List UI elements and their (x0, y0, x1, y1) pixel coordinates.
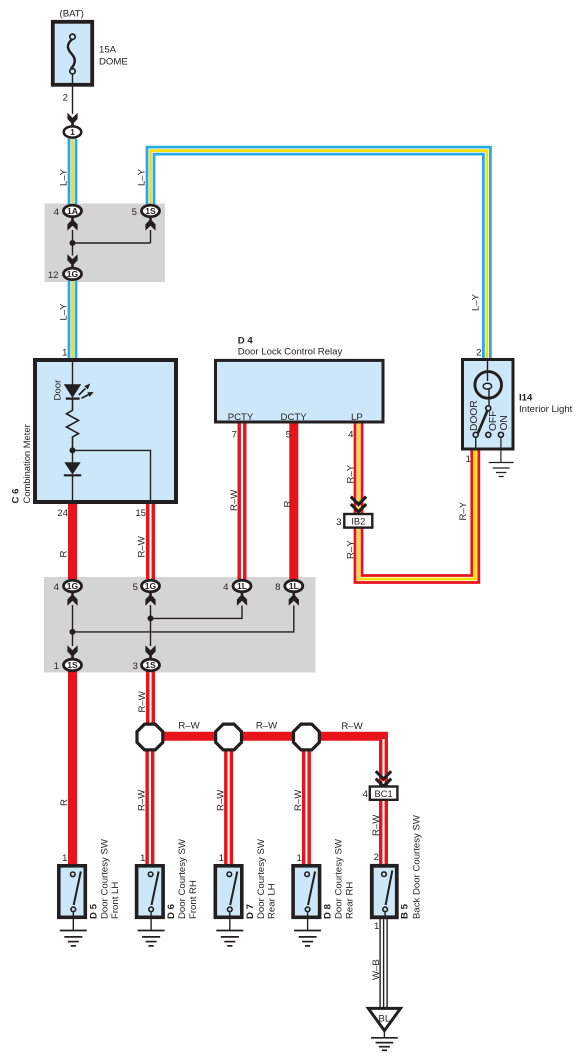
svg-text:PCTY: PCTY (228, 412, 254, 423)
svg-text:ON: ON (499, 415, 510, 430)
svg-text:R: R (59, 551, 70, 558)
svg-text:R–Y: R–Y (458, 501, 469, 520)
svg-text:IB2: IB2 (351, 517, 365, 527)
C6 internal wire from pin 1 (72, 358, 74, 385)
svg-text:(BAT): (BAT) (60, 9, 84, 20)
arrow up into connector 1G(4) (67, 592, 77, 606)
upper J/B internal wiring: stem to 1A (73, 230, 151, 256)
connector ellipse 1A pin 4 (64, 205, 82, 217)
arrow up into connector 1L(8) (289, 592, 299, 606)
arrow down into connector 1 (67, 113, 77, 127)
svg-text:DOME: DOME (99, 57, 128, 68)
svg-text:BC1: BC1 (375, 789, 393, 799)
svg-text:4: 4 (348, 430, 354, 441)
svg-text:5: 5 (132, 207, 137, 218)
svg-text:7: 7 (232, 430, 237, 441)
connector ellipse 1S pin 5 (142, 205, 160, 217)
svg-text:R–Y: R–Y (346, 464, 357, 483)
connector BC1 chevron (376, 771, 391, 786)
svg-text:Door: Door (53, 379, 64, 401)
connector ellipse 1 below fuse (64, 126, 82, 137)
svg-text:1L: 1L (237, 581, 247, 591)
arrow up into connector 1S (145, 216, 155, 230)
svg-text:Door Lock Control Relay: Door Lock Control Relay (238, 347, 343, 358)
LED Door indicator (64, 384, 94, 399)
svg-text:3: 3 (133, 661, 138, 672)
junction dot upper J/B (70, 240, 76, 246)
svg-text:Rear LH: Rear LH (267, 883, 278, 919)
wire R-W horizontal junction row to connector BC1 (151, 736, 384, 786)
junction octagon 2 (216, 724, 242, 750)
wire L-Y from connector 1S to interior light pin 2 (151, 151, 487, 358)
svg-text:1: 1 (54, 661, 59, 672)
svg-text:DOOR: DOOR (469, 400, 480, 431)
svg-text:OFF: OFF (488, 411, 499, 431)
connector ellipse 1G pin 12 (64, 268, 82, 280)
svg-text:R: R (283, 501, 294, 508)
svg-text:2: 2 (63, 93, 68, 104)
connector IB2 box pin 3 (344, 514, 372, 528)
door courtesy SW front LH D5 (59, 866, 86, 931)
svg-text:1: 1 (140, 853, 145, 864)
svg-text:1G: 1G (67, 269, 79, 279)
svg-text:2: 2 (476, 348, 481, 359)
svg-text:D 4: D 4 (238, 336, 254, 347)
wire R from relay DCTY to connector 1L(8) (289, 424, 298, 580)
svg-text:R–W: R–W (341, 721, 363, 732)
ground symbol below I14 (489, 463, 514, 477)
svg-text:Rear RH: Rear RH (344, 882, 355, 919)
svg-text:R–W: R–W (137, 789, 148, 811)
arrow down into connector 1S(1) (67, 645, 77, 659)
connector ellipse 1G pin 4 lower (64, 580, 82, 592)
svg-text:2: 2 (374, 852, 379, 863)
svg-text:1A: 1A (67, 206, 78, 216)
wire R from combination meter pin 24 to connector 1G(4) (68, 504, 77, 579)
svg-text:4: 4 (223, 582, 229, 593)
svg-text:15A: 15A (99, 45, 117, 56)
junction octagon 1 (137, 724, 163, 750)
door lock control relay D4 box (216, 360, 384, 422)
svg-text:4: 4 (54, 582, 60, 593)
svg-text:Front RH: Front RH (188, 880, 199, 919)
svg-text:Interior Light: Interior Light (519, 404, 573, 415)
svg-text:R–W: R–W (178, 720, 200, 731)
wire L-Y from connector 1G to combination meter pin 1 (68, 281, 78, 358)
svg-text:15: 15 (135, 508, 146, 519)
svg-text:R–W: R–W (371, 814, 382, 836)
fuse 15A DOME (53, 22, 92, 86)
junction octagon 3 (294, 724, 320, 750)
svg-text:1S: 1S (145, 660, 156, 670)
interior light I14 box (463, 360, 514, 450)
svg-text:4: 4 (54, 207, 60, 218)
connector ellipse 1G pin 5 lower (142, 580, 160, 592)
svg-text:Front LH: Front LH (110, 882, 121, 919)
svg-text:1G: 1G (145, 581, 157, 591)
connector ellipse 1S pin 3 lower (142, 659, 160, 671)
svg-text:1: 1 (219, 853, 224, 864)
I14 lamp bulb (475, 358, 502, 406)
svg-text:Combination Meter: Combination Meter (21, 424, 32, 503)
wire R-W junction to door courtesy SW rear LH (224, 737, 233, 864)
svg-text:Door Courtesy SW: Door Courtesy SW (256, 838, 267, 919)
arrow up into connector 1L(4) (237, 592, 247, 606)
back door courtesy SW B5 (372, 866, 397, 919)
svg-text:Door Courtesy SW: Door Courtesy SW (177, 838, 188, 919)
svg-text:1G: 1G (67, 581, 79, 591)
wire R-Y from relay LP to connector IB2 (354, 424, 364, 515)
svg-text:D 6: D 6 (166, 904, 177, 919)
svg-text:D 5: D 5 (88, 903, 99, 919)
svg-text:R–W: R–W (137, 690, 148, 712)
wire R-W from relay PCTY to connector 1L(4) (238, 424, 247, 580)
svg-text:1: 1 (296, 853, 301, 864)
arrow up into connector 1G(5) (145, 592, 155, 606)
svg-text:R–W: R–W (229, 489, 240, 511)
ground below D5 (60, 931, 87, 946)
svg-text:Back Door Courtesy SW: Back Door Courtesy SW (412, 814, 423, 919)
svg-text:1S: 1S (145, 206, 156, 216)
svg-text:1: 1 (466, 454, 471, 465)
junction dot lower J/B left (70, 629, 76, 635)
svg-text:R–W: R–W (293, 789, 304, 811)
C6 internal wire to pin 15 (73, 450, 151, 504)
lower J/B internal wiring (73, 605, 294, 646)
door courtesy SW rear RH D8 (293, 866, 320, 931)
svg-text:1L: 1L (289, 581, 299, 591)
svg-text:R–Y: R–Y (346, 540, 357, 559)
ground below D8 (294, 931, 321, 946)
junction dot lower J/B mid (148, 615, 154, 621)
junction dot in C6 (70, 447, 76, 453)
svg-text:Door Courtesy SW: Door Courtesy SW (334, 838, 345, 919)
svg-text:W–B: W–B (371, 959, 382, 980)
wire W-B from back door courtesy SW pin 1 to ground point BL (379, 919, 387, 1009)
wire L-Y from fuse to connector 1A (68, 139, 78, 205)
wire R from connector 1S(1) to door courtesy SW front LH (68, 671, 77, 864)
svg-text:DCTY: DCTY (281, 412, 308, 423)
wire R-W from connector 1S(3) to junction (146, 671, 155, 737)
diode in C6 (64, 450, 81, 504)
wire R-W junction to door courtesy SW rear RH (302, 737, 311, 864)
svg-text:12: 12 (48, 270, 59, 281)
svg-text:4: 4 (363, 789, 369, 800)
connector ellipse 1S pin 1 lower (64, 659, 82, 671)
combination meter C6 box (35, 360, 176, 502)
I14 switch DOOR/OFF/ON (473, 406, 503, 463)
svg-text:3: 3 (336, 517, 341, 528)
arrow down into connector 1G (67, 254, 77, 268)
svg-text:1S: 1S (67, 660, 78, 670)
door courtesy SW front RH D6 (137, 866, 164, 931)
svg-text:8: 8 (275, 582, 280, 593)
svg-text:BL: BL (378, 1013, 390, 1024)
svg-text:L–Y: L–Y (59, 303, 70, 321)
svg-text:24: 24 (57, 508, 68, 519)
wire R-Y from connector IB2 to interior light pin 1 (359, 451, 476, 580)
connector ellipse 1L pin 8 (285, 580, 303, 592)
svg-text:D 7: D 7 (245, 904, 256, 919)
ground point BL triangle (368, 1008, 400, 1037)
svg-text:R–W: R–W (256, 720, 278, 731)
arrow up into connector 1A (67, 216, 77, 230)
connector ellipse 1L pin 4 (233, 580, 251, 592)
svg-text:B 5: B 5 (400, 903, 411, 919)
svg-text:L–Y: L–Y (59, 168, 70, 186)
door courtesy SW rear LH D7 (215, 866, 242, 931)
svg-text:L–Y: L–Y (137, 168, 148, 186)
svg-text:R–W: R–W (137, 535, 148, 557)
svg-text:1: 1 (62, 853, 67, 864)
wire R-W from connector BC1 to back door courtesy SW pin 2 (379, 800, 388, 865)
svg-text:1: 1 (374, 921, 379, 932)
svg-text:R–W: R–W (215, 789, 226, 811)
svg-text:5: 5 (286, 430, 291, 441)
svg-text:1: 1 (62, 348, 67, 359)
svg-text:I14: I14 (519, 393, 533, 404)
connector BC1 box pin 4 (370, 787, 398, 800)
svg-text:5: 5 (133, 582, 138, 593)
svg-text:D 8: D 8 (323, 903, 334, 919)
junction block J/B lower gray box (44, 577, 316, 673)
svg-text:C 6: C 6 (11, 489, 22, 504)
wire fuse pin 2 to connector 1 (72, 86, 74, 114)
svg-text:Door Courtesy SW: Door Courtesy SW (99, 838, 110, 919)
svg-text:1: 1 (70, 127, 75, 137)
wire R-W from combination meter pin 15 to connector 1G(5) (146, 504, 155, 579)
svg-text:LP: LP (351, 412, 363, 423)
ground below D7 (216, 931, 243, 946)
connector IB2 chevron (351, 497, 366, 512)
resistor in C6 (67, 399, 79, 451)
svg-text:L–Y: L–Y (471, 293, 482, 311)
arrow down into connector 1S(3) (145, 645, 155, 659)
ground below BL (371, 1038, 398, 1051)
svg-text:R: R (59, 799, 70, 806)
junction block J/B upper gray box (45, 204, 166, 283)
ground below D6 (138, 931, 165, 946)
wire R-W junction to door courtesy SW front RH (145, 737, 154, 864)
